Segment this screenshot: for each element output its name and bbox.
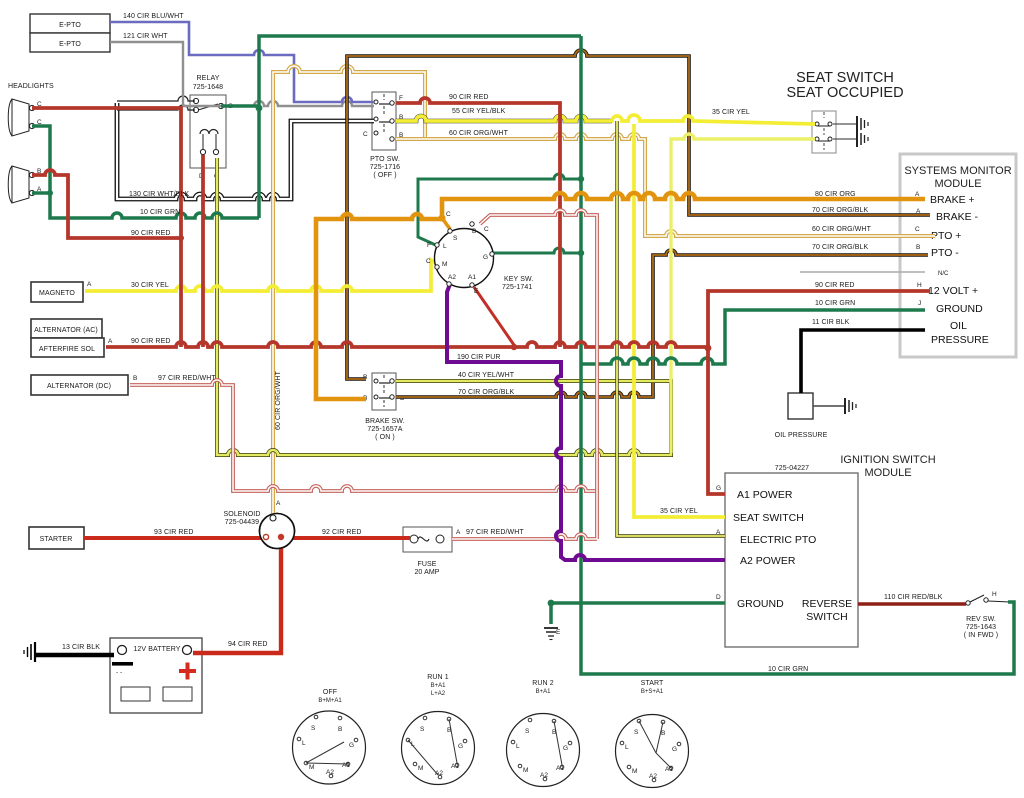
svg-text:L: L <box>625 744 629 751</box>
box AFTERFIRE SOL <box>31 338 113 357</box>
svg-text:A1: A1 <box>451 763 459 770</box>
seat switch ground lead 2 <box>833 131 868 147</box>
svg-text:ALTERNATOR (DC): ALTERNATOR (DC) <box>47 383 111 390</box>
ignition module pin labels <box>716 485 852 623</box>
svg-text:A1: A1 <box>342 762 350 769</box>
label SEAT SWITCH / SEAT OCCUPIED <box>786 70 903 101</box>
wire 70 CIR ORG/BLK (brake B to systems monitor BRAKE-) <box>347 50 930 379</box>
svg-text:E-PTO: E-PTO <box>59 41 81 48</box>
svg-text:( OFF ): ( OFF ) <box>373 172 396 179</box>
wire green ignition GROUND run <box>551 603 725 624</box>
N/C stub wire <box>800 271 925 273</box>
wire 30 CIR YEL (magneto to key switch) <box>85 260 436 291</box>
svg-text:OIL: OIL <box>950 320 967 332</box>
svg-text:RUN 1: RUN 1 <box>427 674 449 681</box>
relay 725-1648 <box>190 75 233 180</box>
svg-text:B+A1: B+A1 <box>536 689 552 695</box>
svg-text:F: F <box>427 242 431 249</box>
svg-text:B: B <box>338 726 342 733</box>
svg-text:A: A <box>108 338 113 345</box>
wire 90 CIR RED afterfire main run <box>106 342 708 347</box>
node red junction dots <box>178 235 711 351</box>
key position circle RUN 1 <box>402 674 475 785</box>
wire 11 CIR BLK (oil pressure to systems monitor) <box>801 330 925 393</box>
svg-text:G: G <box>483 254 488 261</box>
svg-text:IGNITION SWITCH: IGNITION SWITCH <box>840 454 935 466</box>
svg-text:A2 POWER: A2 POWER <box>740 555 796 567</box>
svg-text:BRAKE SW.: BRAKE SW. <box>365 418 404 425</box>
svg-text:S: S <box>311 725 316 732</box>
svg-text:C: C <box>915 226 920 233</box>
wire 40 CIR YEL/WHT branch (to ignition ELECTRIC PTO) <box>617 121 725 536</box>
svg-text:S: S <box>420 726 425 733</box>
svg-text:L+A2: L+A2 <box>431 691 446 697</box>
svg-text:B: B <box>472 228 476 235</box>
svg-text:C: C <box>363 131 368 138</box>
key position circle RUN 2 <box>507 680 580 787</box>
svg-text:( IN FWD ): ( IN FWD ) <box>964 632 998 639</box>
svg-text:A: A <box>276 500 281 507</box>
svg-text:RELAY: RELAY <box>197 75 220 82</box>
svg-text:10 CIR GRN: 10 CIR GRN <box>815 300 855 307</box>
svg-text:90 CIR RED: 90 CIR RED <box>449 94 489 101</box>
seat switch ground lead 1 <box>833 116 868 132</box>
svg-text:80 CIR ORG: 80 CIR ORG <box>815 191 856 198</box>
svg-text:G: G <box>458 743 463 750</box>
svg-text:PTO SW.: PTO SW. <box>370 156 400 163</box>
wire 90 CIR RED (PTO F east and down) <box>396 98 560 347</box>
svg-text:SOLENOID: SOLENOID <box>224 511 261 518</box>
svg-text:E: E <box>556 629 561 636</box>
key position circle OFF <box>293 689 366 784</box>
battery terminals restamp <box>118 646 192 655</box>
ground symbol E <box>544 628 561 640</box>
svg-text:PTO -: PTO - <box>931 247 959 259</box>
headlight lamp 1 <box>8 99 42 136</box>
svg-text:A2: A2 <box>540 772 548 779</box>
svg-text:90 CIR RED: 90 CIR RED <box>131 230 171 237</box>
svg-text:13 CIR BLK: 13 CIR BLK <box>62 644 100 651</box>
box ALTERNATOR (DC) <box>31 375 137 395</box>
svg-text:55 CIR YEL/BLK: 55 CIR YEL/BLK <box>452 108 506 115</box>
svg-text:MODULE: MODULE <box>864 467 911 479</box>
svg-text:11 CIR BLK: 11 CIR BLK <box>812 319 850 326</box>
ignition switch module box <box>725 454 936 647</box>
svg-text:90 CIR RED: 90 CIR RED <box>815 282 855 289</box>
svg-text:35 CIR YEL: 35 CIR YEL <box>712 109 750 116</box>
wire 90 CIR RED headlight B loop <box>32 170 181 238</box>
battery ground symbol <box>24 642 35 662</box>
wire 55 CIR YEL/BLK loop (relay C down and east to brake top) <box>217 158 671 455</box>
svg-text:SYSTEMS MONITOR: SYSTEMS MONITOR <box>904 165 1011 177</box>
svg-text:BRAKE +: BRAKE + <box>930 194 975 206</box>
svg-text:REV SW.: REV SW. <box>966 616 996 623</box>
wire 13 CIR BLK (battery to ground) <box>35 653 114 658</box>
svg-text:ALTERNATOR (AC): ALTERNATOR (AC) <box>34 327 98 334</box>
svg-text:725-1643: 725-1643 <box>966 624 996 631</box>
svg-text:SEAT OCCUPIED: SEAT OCCUPIED <box>786 85 903 101</box>
svg-text:J: J <box>918 300 921 307</box>
svg-text:AFTERFIRE SOL: AFTERFIRE SOL <box>39 346 95 353</box>
svg-text:10 CIR GRN: 10 CIR GRN <box>140 209 180 216</box>
wire 97 CIR RED/WHT (alternator DC loop) <box>130 380 597 491</box>
wire green relay G riser and top run <box>221 36 581 218</box>
svg-text:S: S <box>453 235 458 242</box>
svg-text:N/C: N/C <box>938 271 949 277</box>
wire green headlight A stub <box>32 191 50 195</box>
svg-text:60 CIR ORG/WHT: 60 CIR ORG/WHT <box>275 370 282 430</box>
svg-text:OIL PRESSURE: OIL PRESSURE <box>775 432 828 439</box>
svg-text:L: L <box>516 743 520 750</box>
svg-text:110 CIR RED/BLK: 110 CIR RED/BLK <box>884 594 943 601</box>
svg-text:A1: A1 <box>665 766 673 773</box>
svg-text:C: C <box>426 258 431 265</box>
svg-text:B: B <box>133 375 137 382</box>
svg-text:35 CIR YEL: 35 CIR YEL <box>660 508 698 515</box>
wire 140 CIR BLU/WHT (E-PTO to PTO switch) <box>110 22 374 102</box>
svg-text:725-1741: 725-1741 <box>502 284 532 291</box>
svg-text:D: D <box>716 594 721 601</box>
svg-text:G: G <box>563 745 568 752</box>
svg-text:A1 POWER: A1 POWER <box>737 489 793 501</box>
svg-text:A2: A2 <box>326 769 334 776</box>
wire 94 CIR RED (battery to solenoid) <box>193 540 281 653</box>
svg-text:A1: A1 <box>556 765 564 772</box>
brake switch 725-1657A <box>363 373 405 441</box>
svg-text:70 CIR ORG/BLK: 70 CIR ORG/BLK <box>812 207 868 214</box>
svg-text:121 CIR WHT: 121 CIR WHT <box>123 33 168 40</box>
svg-text:MAGNETO: MAGNETO <box>39 290 75 297</box>
connector E-PTO (bottom) <box>30 33 110 52</box>
svg-text:L: L <box>443 243 447 250</box>
svg-text:93 CIR RED: 93 CIR RED <box>154 529 194 536</box>
svg-text:M: M <box>523 767 528 774</box>
svg-text:60 CIR ORG/WHT: 60 CIR ORG/WHT <box>812 226 872 233</box>
svg-text:M: M <box>418 765 423 772</box>
svg-text:RUN 2: RUN 2 <box>532 680 554 687</box>
systems monitor module box <box>900 154 1016 357</box>
box MAGNETO <box>31 281 92 302</box>
svg-text:M: M <box>309 764 314 771</box>
wire red key A1 diagonal <box>474 287 514 345</box>
svg-text:12V BATTERY: 12V BATTERY <box>133 646 180 653</box>
wire relay contact leads <box>117 96 195 110</box>
svg-text:G: G <box>349 742 354 749</box>
wire 80 CIR ORG (brake B up, east to systems monitor BRAKE+) <box>316 193 925 399</box>
wire 55 CIR YEL/BLK (PTO B east, becomes 35 CIR YEL to seat switch) <box>396 115 815 124</box>
wire 70 CIR ORG/BLK (brake D to systems monitor PTO-) <box>396 250 928 397</box>
svg-text:92 CIR RED: 92 CIR RED <box>322 529 362 536</box>
svg-text:H: H <box>917 282 922 289</box>
seat switch symbol <box>812 111 836 153</box>
wire 10 CIR GRN (to systems monitor GROUND) <box>581 310 925 364</box>
svg-text:725-04227: 725-04227 <box>775 465 809 472</box>
svg-text:FUSE: FUSE <box>417 561 436 568</box>
connector E-PTO (top) <box>30 14 110 33</box>
wire 35 CIR YEL vertical branch (to ignition SEAT SWITCH) <box>634 124 725 517</box>
svg-text:70 CIR ORG/BLK: 70 CIR ORG/BLK <box>458 389 514 396</box>
fuse 20 AMP <box>403 527 461 576</box>
svg-text:C: C <box>484 226 489 233</box>
svg-text:S: S <box>634 729 639 736</box>
svg-text:190 CIR PUR: 190 CIR PUR <box>457 354 501 361</box>
svg-text:12 VOLT +: 12 VOLT + <box>928 285 978 297</box>
svg-text:GROUND: GROUND <box>737 598 784 610</box>
svg-text:10 CIR GRN: 10 CIR GRN <box>768 666 808 673</box>
svg-text:A: A <box>456 529 461 536</box>
svg-text:B: B <box>916 244 920 251</box>
wire 90 CIR RED (to systems monitor 12 VOLT+ and ignition A1 POWER) <box>708 291 930 494</box>
svg-text:OFF: OFF <box>323 689 337 696</box>
svg-text:F: F <box>399 95 403 102</box>
svg-text:S: S <box>525 728 530 735</box>
svg-text:KEY SW.: KEY SW. <box>504 276 533 283</box>
solenoid 725-04439 <box>224 500 295 549</box>
svg-text:20 AMP: 20 AMP <box>414 569 439 576</box>
box STARTER <box>29 527 84 549</box>
wire 35 CIR YEL (pale, seat switch lower to vertical) <box>671 134 815 453</box>
wire 90 CIR RED headlight C run <box>32 108 181 347</box>
node green junction dots <box>47 105 584 607</box>
svg-text:B+S+A1: B+S+A1 <box>641 689 664 695</box>
wire 110 CIR RED/BLK (ignition to reverse switch) <box>858 602 966 606</box>
svg-text:PTO +: PTO + <box>931 230 961 242</box>
wire 93 CIR RED (starter to solenoid) <box>84 536 263 540</box>
svg-text:STARTER: STARTER <box>40 536 73 543</box>
svg-text:A1: A1 <box>468 274 476 281</box>
svg-text:M: M <box>632 768 637 775</box>
svg-text:725-1657A: 725-1657A <box>367 426 402 433</box>
svg-text:PRESSURE: PRESSURE <box>931 334 989 346</box>
svg-text:B+A1: B+A1 <box>431 683 447 689</box>
headlight lamp 2 <box>8 166 42 203</box>
svg-text:70 CIR ORG/BLK: 70 CIR ORG/BLK <box>812 244 868 251</box>
wire 130 CIR WHT/BLK loop (relay to PTO switch) <box>117 103 374 199</box>
key switch 725-1741 <box>426 211 533 295</box>
svg-text:140 CIR BLU/WHT: 140 CIR BLU/WHT <box>123 13 184 20</box>
svg-text:REVERSE: REVERSE <box>802 598 852 610</box>
svg-text:130 CIR WHT/BLK: 130 CIR WHT/BLK <box>129 191 189 198</box>
svg-text:L: L <box>302 740 306 747</box>
wire 92 CIR RED (solenoid to fuse) <box>285 536 410 540</box>
svg-text:GROUND: GROUND <box>936 303 983 315</box>
wire green key L branch <box>418 174 581 247</box>
wire 10 CIR GRN (headlights to relay area) <box>32 126 259 218</box>
systems monitor pin labels <box>915 191 989 346</box>
svg-text:B+M+A1: B+M+A1 <box>318 698 342 704</box>
svg-text:C: C <box>446 211 451 218</box>
oil pressure ground <box>813 398 856 414</box>
svg-text:94 CIR RED: 94 CIR RED <box>228 641 268 648</box>
svg-text:E: E <box>474 288 479 295</box>
svg-text:M: M <box>442 261 447 268</box>
svg-text:START: START <box>641 680 664 687</box>
svg-text:BRAKE -: BRAKE - <box>936 211 979 223</box>
solenoid body restamp <box>260 514 295 549</box>
svg-text:A2: A2 <box>649 773 657 780</box>
svg-text:G: G <box>672 746 677 753</box>
reverse switch symbol REV SW 725-1643 <box>964 591 1010 639</box>
svg-text:H: H <box>992 591 997 598</box>
key position circle START <box>616 680 689 788</box>
svg-text:MODULE: MODULE <box>934 178 981 190</box>
svg-text:SEAT SWITCH: SEAT SWITCH <box>733 512 804 524</box>
svg-text:B: B <box>661 730 665 737</box>
wire green main vertical <box>581 36 1014 674</box>
wire 121 CIR WHT (E-PTO to PTO switch) <box>110 42 374 106</box>
svg-text:HEADLIGHTS: HEADLIGHTS <box>8 83 54 90</box>
svg-text:30 CIR YEL: 30 CIR YEL <box>131 282 169 289</box>
svg-text:E-PTO: E-PTO <box>59 22 81 29</box>
svg-text:A2: A2 <box>448 274 456 281</box>
svg-text:60 CIR ORG/WHT: 60 CIR ORG/WHT <box>449 130 509 137</box>
PTO switch 725-1716 <box>363 92 403 179</box>
svg-text:- -: - - <box>116 669 122 676</box>
svg-text:SEAT SWITCH: SEAT SWITCH <box>796 70 894 86</box>
svg-text:A: A <box>87 281 92 288</box>
wire 97 CIR RED/WHT (key B to fuse vertical) <box>452 210 597 539</box>
svg-text:725-1648: 725-1648 <box>193 84 223 91</box>
svg-text:725-1716: 725-1716 <box>370 164 400 171</box>
svg-text:725-04439: 725-04439 <box>225 519 259 526</box>
svg-text:( ON ): ( ON ) <box>375 434 395 441</box>
box 12V BATTERY <box>110 638 202 713</box>
svg-text:G: G <box>716 485 721 492</box>
svg-text:97 CIR RED/WHT: 97 CIR RED/WHT <box>466 529 524 536</box>
svg-text:ELECTRIC PTO: ELECTRIC PTO <box>740 534 816 546</box>
wire green key G branch <box>492 248 581 253</box>
wire red relay D drop <box>201 155 205 347</box>
oil pressure sender box <box>775 393 828 439</box>
wire 60 CIR ORG/WHT vertical to solenoid A <box>273 66 425 515</box>
svg-text:SWITCH: SWITCH <box>806 611 847 623</box>
svg-text:97 CIR RED/WHT: 97 CIR RED/WHT <box>158 375 216 382</box>
wire 190 CIR PUR (key A2 to ignition A2 POWER) <box>447 284 725 560</box>
svg-text:90 CIR RED: 90 CIR RED <box>131 338 171 345</box>
wire 60 CIR ORG/WHT (PTO switch to systems monitor PTO+) <box>396 134 935 236</box>
box ALTERNATOR (AC) <box>31 319 102 338</box>
svg-text:40 CIR YEL/WHT: 40 CIR YEL/WHT <box>458 372 515 379</box>
